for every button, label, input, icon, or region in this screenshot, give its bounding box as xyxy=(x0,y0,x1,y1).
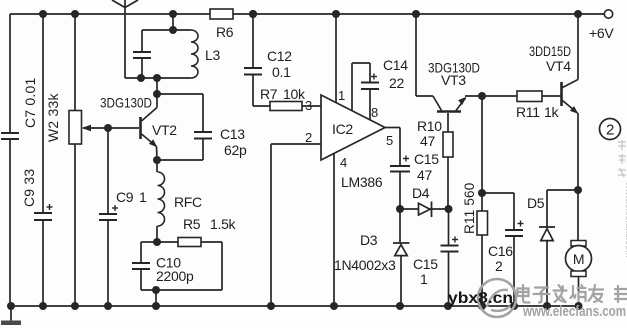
watermark url xyxy=(522,303,626,320)
svg-text:R5: R5 xyxy=(183,216,201,232)
watermark right edge xyxy=(618,140,627,258)
node tank top xyxy=(169,26,177,34)
wire VT3 collector riser xyxy=(415,14,417,96)
svg-text:2: 2 xyxy=(606,122,614,139)
node pin6 rail xyxy=(332,10,340,18)
diode D4 xyxy=(400,185,449,217)
wire VT4 emitter xyxy=(577,113,579,241)
capacitor C16 xyxy=(482,193,524,306)
wire pin6 vcc xyxy=(335,14,337,103)
node D5 branch xyxy=(574,186,582,194)
transistor VT2 xyxy=(141,108,158,148)
svg-text:M: M xyxy=(573,251,584,267)
wire +6V top rail xyxy=(10,13,604,15)
label VT2 xyxy=(100,95,177,139)
node VT2 emitter xyxy=(153,156,161,164)
W2 wiper arrow xyxy=(82,125,108,132)
svg-text:RFC: RFC xyxy=(174,194,202,210)
wire VT2 base xyxy=(108,127,139,129)
antenna xyxy=(112,0,138,8)
svg-text:1: 1 xyxy=(338,88,345,103)
svg-text:1N4002x3: 1N4002x3 xyxy=(334,257,396,273)
svg-text:3: 3 xyxy=(305,98,312,113)
wire bottom ground rail xyxy=(10,305,579,307)
bottom rail junctions xyxy=(7,302,583,310)
node tank cap bottom xyxy=(137,74,145,82)
node W2/C9 junction xyxy=(104,124,112,132)
node D4 cathode xyxy=(445,205,453,213)
svg-text:LM386: LM386 xyxy=(341,174,383,190)
capacitor C13 xyxy=(157,94,247,160)
svg-text:C15: C15 xyxy=(414,151,439,167)
svg-text:8: 8 xyxy=(371,105,378,120)
svg-text:IC2: IC2 xyxy=(332,121,353,137)
op-amp IC2 xyxy=(321,95,385,190)
node D4 anode xyxy=(396,205,404,213)
wire tank top xyxy=(142,29,191,31)
svg-text:C7 0.01: C7 0.01 xyxy=(22,78,38,128)
wire pin2 xyxy=(271,144,321,306)
diode D5 xyxy=(527,190,578,306)
ground xyxy=(1,306,21,325)
svg-text:1.5k: 1.5k xyxy=(210,216,237,232)
node C16 branch xyxy=(478,189,486,197)
transistor VT4 xyxy=(562,80,579,114)
label VT3 xyxy=(428,60,480,89)
watermark site name glyphs xyxy=(518,285,627,303)
watermark logo circle xyxy=(478,279,516,317)
svg-text:C14: C14 xyxy=(383,57,408,73)
pin 3 label xyxy=(305,98,312,113)
svg-text:VT2: VT2 xyxy=(152,122,177,138)
pin 8 label xyxy=(371,105,378,120)
svg-text:1k: 1k xyxy=(544,104,559,120)
wire pin4 xyxy=(333,154,335,307)
node tank collector xyxy=(153,74,161,82)
svg-text:C16: C16 xyxy=(488,243,513,259)
resistor R6 xyxy=(210,9,234,40)
svg-text:D3: D3 xyxy=(360,232,378,248)
svg-text:+6V: +6V xyxy=(589,25,614,41)
top rail junctions xyxy=(39,10,257,18)
svg-text:5: 5 xyxy=(386,133,393,148)
svg-text:3DD15D: 3DD15D xyxy=(529,43,571,59)
wire VT2 collector riser xyxy=(156,78,158,108)
node R6 right xyxy=(249,10,257,18)
svg-text:47: 47 xyxy=(417,167,432,183)
wire tank riser xyxy=(172,14,174,30)
svg-text:0.1: 0.1 xyxy=(272,64,291,80)
svg-text:C9 33: C9 33 xyxy=(21,169,37,207)
svg-text:3DG130D: 3DG130D xyxy=(100,95,152,111)
inductor RFC xyxy=(157,160,202,242)
motor M xyxy=(566,241,592,307)
capacitor C9 1 xyxy=(99,128,147,306)
svg-text:4: 4 xyxy=(340,155,347,170)
svg-text:2: 2 xyxy=(305,130,312,145)
potentiometer W2 xyxy=(45,14,82,306)
svg-text:2: 2 xyxy=(495,258,503,274)
capacitor C7 xyxy=(1,78,38,139)
svg-text:47: 47 xyxy=(420,133,435,149)
svg-text:VT4: VT4 xyxy=(546,58,571,74)
wire VT2 emitter xyxy=(156,147,159,161)
node VT3 emitter xyxy=(478,92,486,100)
wire antenna lead xyxy=(124,8,126,79)
capacitor C15 47 xyxy=(390,151,439,209)
svg-text:62p: 62p xyxy=(224,142,247,158)
capacitor C14 xyxy=(352,57,408,121)
wire VT4 collector riser xyxy=(577,14,579,80)
wire VT3 emitter xyxy=(465,95,517,97)
node C10 bottom xyxy=(152,286,160,294)
pin 2 label xyxy=(305,130,312,145)
transistor VT3 xyxy=(416,96,466,112)
figure number circled 2 xyxy=(600,119,621,140)
svg-text:W2 33k: W2 33k xyxy=(45,93,61,142)
node VT3 rail xyxy=(412,10,420,18)
capacitor C9 33 xyxy=(21,14,53,306)
wire tank bottom xyxy=(125,77,191,79)
node VT4 rail xyxy=(574,10,582,18)
svg-text:D4: D4 xyxy=(412,185,430,201)
wire left column xyxy=(9,14,11,306)
svg-text:2200p: 2200p xyxy=(156,268,194,284)
wire output xyxy=(384,128,400,167)
svg-text:C9: C9 xyxy=(116,189,134,205)
capacitor C15 1 xyxy=(413,209,459,306)
resistor R5 xyxy=(157,216,237,290)
svg-text:L3: L3 xyxy=(205,47,220,63)
label VT4 xyxy=(529,43,571,74)
svg-text:R11: R11 xyxy=(516,104,540,120)
capacitor C12 xyxy=(244,14,292,106)
svg-text:R10: R10 xyxy=(417,118,442,134)
resistor R7 xyxy=(253,86,321,111)
svg-text:ybx8.cn: ybx8.cn xyxy=(448,290,513,307)
svg-text:C15: C15 xyxy=(413,256,438,272)
resistor R11 560 xyxy=(462,96,488,306)
pin 1 label xyxy=(338,88,345,103)
pin 4 label xyxy=(340,155,347,170)
capacitor C10 xyxy=(132,242,222,306)
pin 5 label xyxy=(386,133,393,148)
svg-text:10k: 10k xyxy=(283,86,306,102)
+6V terminal xyxy=(589,10,614,41)
svg-text:R6: R6 xyxy=(216,24,234,40)
svg-text:22: 22 xyxy=(389,75,404,91)
svg-text:www.elecfans.com: www.elecfans.com xyxy=(522,303,626,320)
svg-text:VT3: VT3 xyxy=(441,72,466,88)
svg-text:R7: R7 xyxy=(260,86,278,102)
resistor R11 1k xyxy=(516,91,561,120)
diode D3 xyxy=(334,209,410,306)
node RFC bottom xyxy=(153,238,161,246)
node tank top rail xyxy=(169,10,177,18)
resistor R10 xyxy=(417,113,453,209)
watermark ybx8.cn xyxy=(448,290,513,307)
svg-text:R11 560: R11 560 xyxy=(462,183,477,234)
svg-text:1: 1 xyxy=(139,189,147,205)
capacitor tank C xyxy=(133,30,151,78)
svg-text:C12: C12 xyxy=(267,48,292,64)
inductor L3 xyxy=(191,30,220,78)
svg-text:D5: D5 xyxy=(527,195,545,211)
svg-text:C13: C13 xyxy=(220,126,245,142)
node VT2 collector/C13 xyxy=(153,90,161,98)
svg-text:1: 1 xyxy=(420,271,428,287)
